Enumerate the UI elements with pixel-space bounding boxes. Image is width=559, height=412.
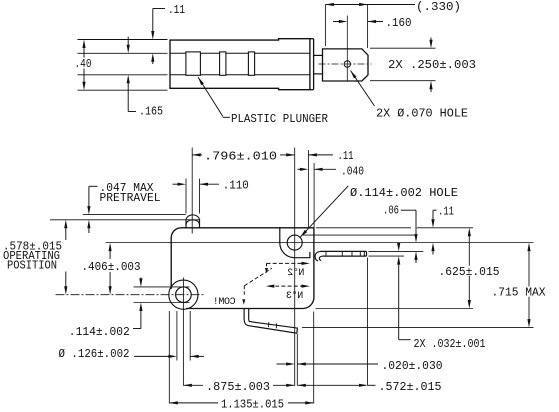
plunger slot 1 (186, 52, 201, 75)
dim .165 arrows (127, 37, 129, 47)
lever bottom edge (324, 255, 367, 257)
centerline through plunger head (319, 63, 372, 65)
dim 1.135 line arrows (169, 401, 178, 404)
switch body outline (side view) (170, 39, 310, 90)
dim .11 arrow and label (308, 153, 317, 156)
tab tick marks (268, 322, 270, 327)
svg-text:1.135±.015: 1.135±.015 (221, 397, 284, 411)
plunger dome free position (186, 215, 200, 221)
terminal label N2 mirrored (287, 267, 304, 279)
svg-text:.572±.015: .572±.015 (379, 380, 442, 394)
svg-text:.11: .11 (438, 204, 454, 218)
svg-text:.020±.030: .020±.030 (382, 359, 443, 373)
dim .572 line arrows (297, 384, 306, 387)
dim .114 arrows (140, 278, 142, 282)
main vertical centerline through mounting hole (294, 148, 296, 386)
dim .875 line arrows (183, 384, 192, 387)
dim .11 ext line B (307, 150, 309, 228)
body internal line lower (170, 74, 310, 76)
svg-text:Ø .126±.002: Ø .126±.002 (59, 347, 130, 361)
horizontal centerline hole1 long (106, 242, 534, 244)
hole1 top tangent ext line (303, 234, 416, 236)
svg-text:2X .032±.001: 2X .032±.001 (414, 337, 486, 351)
lever tick marks (325, 251, 327, 256)
dim .406 label (81, 261, 142, 271)
dim .040 ext line C (313, 163, 315, 228)
plastic plunger leader (198, 77, 204, 85)
dim (.330) label (415, 1, 462, 11)
right side extension lines (316, 227, 411, 229)
horizontal centerline hole2 (56, 294, 205, 296)
svg-text:.040: .040 (341, 164, 364, 178)
dim .11 right bracket (433, 209, 437, 211)
dim .625 label (438, 266, 501, 276)
terminal label N3 mirrored (286, 290, 303, 302)
dim .160 arrows (333, 21, 341, 23)
dim .020 arrows (277, 363, 289, 365)
terminal label COM mirrored (213, 297, 235, 308)
dim .625 line (468, 234, 470, 303)
ext verticals below body (168, 311, 170, 403)
body internal line upper (170, 52, 310, 54)
lever top edge (321, 250, 367, 252)
dim .110 arrows and label (173, 183, 181, 185)
dim .040 arrows and label (298, 168, 303, 170)
dim .796 extension plunger centerline (191, 148, 193, 234)
svg-text:.875±.003: .875±.003 (206, 380, 270, 394)
hole1 boss outline (280, 228, 310, 258)
pretravel bracket and label (89, 185, 98, 187)
svg-text:N°2: N°2 (287, 267, 304, 279)
svg-text:.625±.015: .625±.015 (439, 265, 500, 279)
extension lines left (.40/.11/.165) (78, 39, 168, 41)
svg-text:COM!: COM! (213, 297, 235, 308)
dim .578 down arrow (65, 272, 67, 290)
svg-text:.406±.003: .406±.003 (82, 260, 141, 274)
svg-text:POSITION: POSITION (7, 259, 57, 273)
dim .032 arrows (398, 243, 400, 246)
svg-text:.11: .11 (168, 3, 185, 17)
svg-text:.06: .06 (383, 203, 399, 217)
2X hole leader (351, 71, 357, 79)
dim (.330) extension lines (324, 5, 326, 47)
dim .110 ext lines (185, 179, 187, 214)
svg-text:.165: .165 (139, 105, 163, 119)
pretravel arrows (87, 206, 90, 215)
hole2 tangent ext lines for .114 (134, 286, 190, 288)
dashed vertical at COM (243, 286, 245, 296)
body end cap (313, 39, 315, 90)
svg-text:.160: .160 (386, 16, 412, 30)
dim .406 line and arrows (109, 248, 111, 259)
lever hinge hook (315, 251, 321, 261)
2X .250 extension lines (370, 47, 436, 49)
svg-text:.40: .40 (75, 57, 92, 71)
plunger dome operated position (186, 220, 200, 225)
svg-text:PLASTIC PLUNGER: PLASTIC PLUNGER (231, 112, 328, 126)
svg-text:2X .250±.003: 2X .250±.003 (388, 58, 476, 72)
switch body outline (171, 228, 314, 309)
svg-text:(.330): (.330) (416, 0, 461, 14)
dashed movable contact diagonal (244, 268, 271, 286)
dashed circuit line NC (266, 285, 275, 288)
svg-text:.114±.002: .114±.002 (69, 325, 130, 339)
COM terminal tab (244, 309, 297, 334)
dim .715 label (491, 287, 547, 297)
dim .796 line arrows (192, 154, 202, 156)
mounting hole 2 (176, 287, 192, 303)
body bottom edge left join via hole2 boss arc (169, 280, 198, 309)
hole1 leader (300, 230, 307, 237)
plunger slot 2 (220, 52, 226, 75)
dim .40 vertical with arrows (83, 46, 85, 58)
plunger shaft (314, 54, 323, 56)
svg-text:.110: .110 (223, 179, 249, 193)
svg-text:.796±.010: .796±.010 (204, 149, 277, 163)
svg-text:N°3: N°3 (286, 290, 303, 302)
vertical centerline through hole (346, 16, 348, 82)
dim .715 line (528, 248, 530, 322)
svg-text:.715 MAX: .715 MAX (492, 286, 546, 300)
dim .578 up arrow (65, 226, 67, 241)
lever ext lines right (369, 250, 424, 252)
lever end cap (366, 251, 368, 256)
pretravel line free position (83, 214, 186, 216)
mounting hole 1 (287, 235, 302, 250)
pretravel line operating position (50, 219, 200, 221)
dim .11 bracket top-left (153, 8, 165, 10)
plunger head with chamfers (323, 49, 369, 81)
plunger slot 3 (248, 52, 254, 75)
COM down arrow (242, 299, 245, 305)
hole in plunger head (344, 61, 350, 67)
dashed circuit line NO (267, 262, 304, 264)
svg-text:Ø.114±.002 HOLE: Ø.114±.002 HOLE (350, 186, 458, 200)
2X .250 arrows (430, 38, 432, 43)
svg-text:2X Ø.070 HOLE: 2X Ø.070 HOLE (376, 106, 468, 120)
svg-text:.11: .11 (338, 149, 354, 163)
svg-text:PRETRAVEL: PRETRAVEL (100, 191, 161, 205)
dim (.330) line and arrows (325, 4, 415, 6)
dim .11 lower arrow (152, 59, 154, 64)
plunger side view on top (185, 221, 187, 228)
